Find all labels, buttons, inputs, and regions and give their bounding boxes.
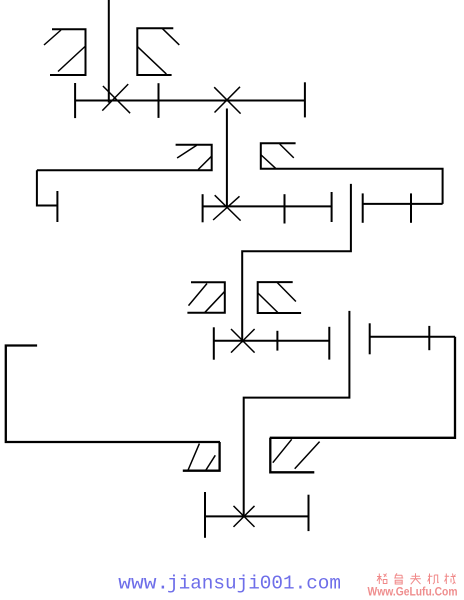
bearing tick shaft IV a [369, 323, 371, 354]
bearing tick shaft III left [213, 327, 215, 359]
gear G5 under frame line [183, 442, 220, 471]
output shaft V [205, 515, 309, 517]
bearing tick shaft V right [308, 495, 310, 531]
shaft I [75, 100, 305, 102]
bearing cross X2 [214, 87, 240, 114]
bearing tick shaft IV b [428, 326, 430, 350]
svg-text:jiansuji001.com: jiansuji001.com [167, 572, 341, 594]
bearing tick shaft II a [202, 194, 204, 222]
gear G6 under riser line [270, 438, 319, 473]
bearing tick shaft III right end [328, 327, 330, 360]
bearing tick shaft II left end [56, 191, 58, 222]
shaft II left end step [37, 170, 58, 205]
watermark GeLufu chinese characters [377, 573, 456, 584]
bearing tick shaft II b [284, 194, 286, 223]
bearing cross X on shaft II [213, 195, 241, 220]
shaft III [214, 340, 329, 342]
bearing cross X3 [231, 329, 255, 353]
bearing tick shaft III middle [276, 331, 278, 351]
riser F from shaft IV down to gear G6 [270, 337, 455, 438]
gear disc line C and link down to shaft III [242, 184, 351, 343]
bearing tick shaft I left [74, 83, 76, 118]
bearing tick stub b [410, 193, 412, 222]
bearing tick shaft V left [204, 492, 206, 538]
output frame left [6, 346, 220, 443]
gear G3 on shaft III left [187, 282, 224, 313]
bearing tick stub a [362, 193, 364, 222]
gear G2 box with right extension to riser [261, 143, 443, 204]
coupling right half C1b [137, 28, 179, 75]
shaft III stub upper right [363, 203, 443, 205]
svg-text:www.: www. [118, 572, 169, 594]
gear G1 on shaft II (box with left extension line) [37, 145, 212, 170]
shaft II [203, 205, 332, 207]
bearing cross X1 [102, 84, 130, 113]
input shaft vertical [108, 0, 110, 103]
coupling left half C1a [44, 29, 86, 75]
shaft IV segment right [370, 336, 455, 338]
vertical connector shaft I to shaft II [226, 109, 228, 208]
gear disc line D with link to output vertical [244, 311, 350, 517]
bearing tick shaft II right end [331, 192, 333, 222]
bearing tick shaft I middle [158, 83, 160, 118]
svg-text:Www.GeLufu.Com: Www.GeLufu.Com [368, 586, 458, 598]
bearing cross X4 [234, 506, 255, 527]
gear G4 on shaft III right [258, 282, 301, 313]
bearing tick shaft I right end [304, 82, 306, 117]
